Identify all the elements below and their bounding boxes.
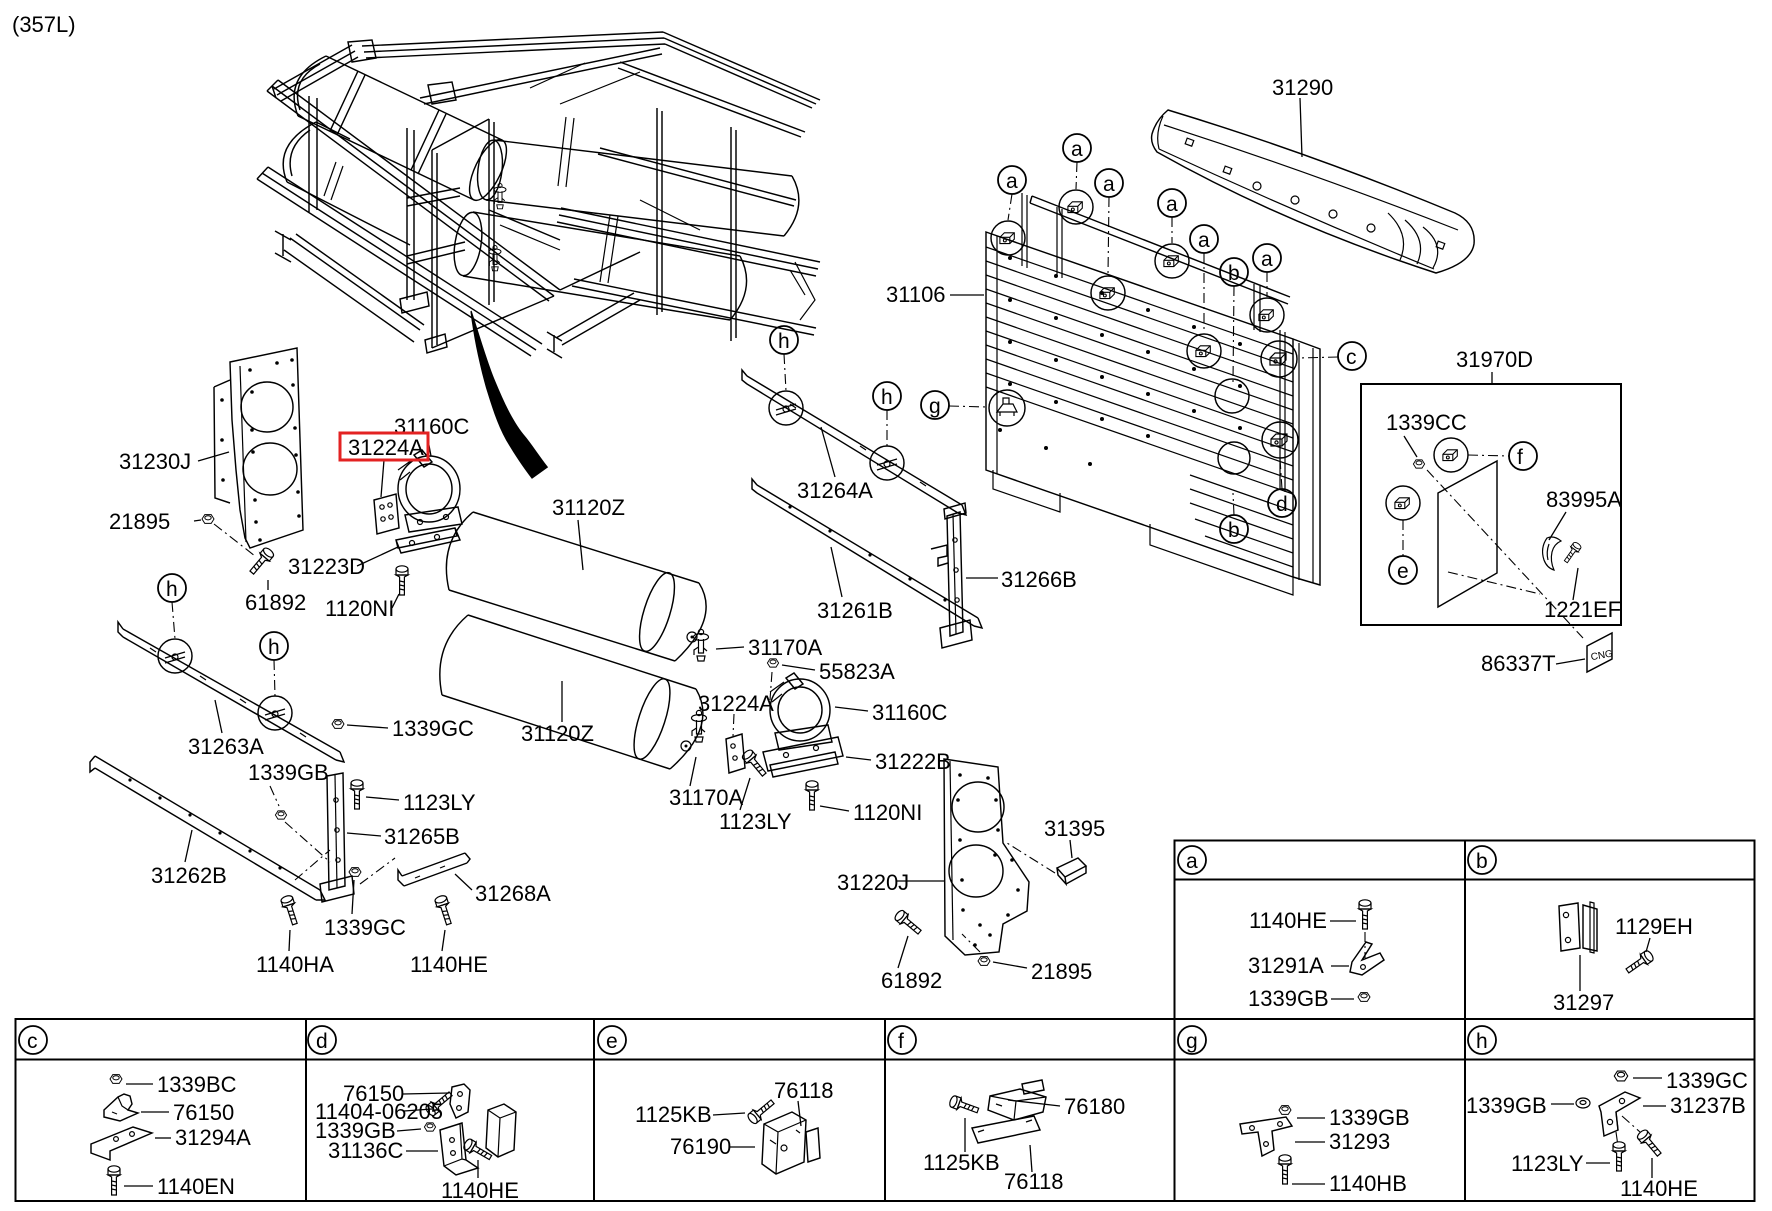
- tank 3 (upper-right): [486, 140, 799, 236]
- cell a: bracket 31291A: [1350, 942, 1384, 975]
- circled letter a (3): [1095, 169, 1123, 197]
- svg-text:1339GB: 1339GB: [1248, 986, 1329, 1011]
- circled letter h (rail2 left): [770, 326, 798, 354]
- detail bubble d: [1262, 422, 1298, 458]
- svg-text:a: a: [1186, 850, 1198, 873]
- reference tables: [16, 841, 1755, 1202]
- cell c: bracket 76150: [104, 1094, 138, 1121]
- svg-text:31106: 31106: [886, 282, 946, 307]
- tank 4 clamp band: [600, 215, 618, 283]
- svg-text:1123LY: 1123LY: [719, 809, 792, 834]
- cell b: screw 1129EH: [1624, 949, 1655, 976]
- header letter h: [1468, 1026, 1496, 1054]
- frame post feet: [400, 292, 447, 353]
- svg-text:a: a: [1166, 193, 1178, 216]
- svg-text:h: h: [778, 330, 790, 353]
- cell f: bolt 1125KB: [948, 1095, 980, 1116]
- bolt 1120NI: [396, 566, 408, 595]
- svg-text:31395: 31395: [1044, 816, 1105, 841]
- cell d: bolt 11404-06205: [424, 1089, 454, 1117]
- panel rivet dots: [998, 256, 1242, 466]
- bracket panel 31230J: [214, 348, 303, 548]
- nut 1339GB: [275, 811, 286, 819]
- cell b: hinge 31297: [1559, 902, 1597, 953]
- cell e: screw 1125KB: [746, 1097, 776, 1125]
- circled letter a (4): [1158, 189, 1186, 217]
- cell d: bracket 76150: [450, 1084, 470, 1118]
- tank 1 clamp band 1: [330, 40, 376, 135]
- svg-text:55823A: 55823A: [819, 659, 895, 684]
- rail 31262B: [90, 756, 325, 900]
- svg-text:86337T: 86337T: [1481, 651, 1556, 676]
- rail 31264A: [742, 370, 966, 515]
- circled letter a (5): [1190, 225, 1218, 253]
- cell g: bracket 31293: [1240, 1117, 1292, 1156]
- svg-text:31263A: 31263A: [188, 734, 264, 759]
- svg-text:1339GB: 1339GB: [1466, 1093, 1547, 1118]
- cell f: strap 76118: [972, 1116, 1040, 1143]
- bracket plate 31224A (2): [726, 734, 745, 773]
- dash-dot connectors: [949, 162, 1338, 515]
- bolt 1140HE: [434, 894, 454, 925]
- svg-text:31120Z: 31120Z: [521, 721, 594, 746]
- CNG label plate 86337T: [1587, 633, 1612, 672]
- circled letter h (rail1 left): [158, 574, 186, 602]
- svg-text:a: a: [1071, 138, 1083, 161]
- svg-text:76118: 76118: [774, 1078, 834, 1103]
- table c-h frame: [16, 1019, 1755, 1201]
- rear frame rail: [420, 48, 662, 104]
- svg-text:1339GB: 1339GB: [248, 760, 329, 785]
- tank 31120Z upper: [446, 512, 706, 661]
- svg-text:1140HE: 1140HE: [1620, 1176, 1698, 1201]
- frame post P2: [489, 119, 494, 305]
- frame post P0: [407, 128, 414, 300]
- svg-text:31291A: 31291A: [1248, 953, 1324, 978]
- cell d: latch plate: [486, 1104, 516, 1157]
- svg-text:31170A: 31170A: [669, 785, 744, 810]
- cell g: bolt 1140HB: [1279, 1155, 1291, 1184]
- frame rail lower-left diagonal: [257, 167, 542, 356]
- cell g: nut 1339GB: [1279, 1106, 1291, 1115]
- detail bubble rail1-1: [158, 639, 192, 673]
- svg-text:76180: 76180: [1064, 1094, 1125, 1119]
- svg-text:g: g: [929, 395, 941, 418]
- svg-text:31237B: 31237B: [1670, 1093, 1746, 1118]
- svg-text:1123LY: 1123LY: [403, 790, 476, 815]
- bolt 1140HA: [280, 894, 300, 925]
- bracket panel 31220J: [944, 759, 1029, 955]
- svg-text:1140HE: 1140HE: [441, 1178, 519, 1203]
- svg-text:31294A: 31294A: [175, 1125, 251, 1150]
- crossmember beam bottom-center: [547, 293, 640, 358]
- detail bubble a4: [1155, 244, 1189, 278]
- svg-text:31297: 31297: [1553, 990, 1614, 1015]
- circled letter a (1): [998, 166, 1026, 194]
- detail bubble a1: [991, 221, 1025, 255]
- svg-text:a: a: [1261, 248, 1273, 271]
- svg-text:1129EH: 1129EH: [1615, 914, 1693, 939]
- screw 1221EF: [1562, 541, 1582, 564]
- svg-text:61892: 61892: [881, 968, 942, 993]
- circled letter d: [1268, 489, 1296, 517]
- header letter b: [1468, 846, 1496, 874]
- frame crossbars between posts: [407, 188, 465, 264]
- svg-text:h: h: [268, 636, 280, 659]
- panel top frame rail: [1030, 196, 1290, 304]
- part 31290 tank cover: [1152, 98, 1475, 273]
- frame post P3: [657, 108, 662, 315]
- circled letter a (2): [1063, 134, 1091, 162]
- valve 31170A (upper): [694, 629, 709, 661]
- svg-text:b: b: [1476, 850, 1488, 873]
- frame top brace: [432, 119, 640, 348]
- svg-text:76118: 76118: [1004, 1169, 1064, 1194]
- frame rail top (to right apex): [362, 32, 820, 108]
- rail 31268A: [398, 853, 470, 886]
- large detail circles on right end: [1215, 379, 1249, 413]
- cell f: bracket 76180: [988, 1080, 1046, 1120]
- svg-text:b: b: [1228, 519, 1240, 542]
- svg-text:h: h: [166, 578, 178, 601]
- chassis assembly with CNG tanks (top reference illustration): [257, 32, 820, 358]
- cell a: nut 1339GB: [1358, 993, 1370, 1002]
- svg-text:31264A: 31264A: [797, 478, 873, 503]
- header letter c: [19, 1026, 47, 1054]
- post 31266B: [931, 503, 972, 648]
- clamp band 31160C (2): [770, 673, 832, 750]
- svg-text:g: g: [1186, 1030, 1198, 1053]
- svg-text:31970D: 31970D: [1456, 347, 1533, 372]
- detail bubble a2: [1059, 190, 1093, 224]
- svg-text:61892: 61892: [245, 590, 306, 615]
- svg-text:1221EF: 1221EF: [1544, 597, 1621, 622]
- svg-text:1140HE: 1140HE: [1249, 908, 1327, 933]
- thick pointer swoosh: [470, 311, 548, 479]
- svg-text:31266B: 31266B: [1001, 567, 1077, 592]
- part 31106 tank mounting gate panel: [921, 134, 1366, 595]
- rear brace lines: [500, 63, 700, 250]
- cell h: bracket 31237B: [1599, 1092, 1640, 1136]
- svg-text:1125KB: 1125KB: [635, 1102, 712, 1127]
- rail 31261B: [752, 479, 982, 628]
- svg-text:f: f: [1517, 446, 1523, 469]
- cell h: nut 1339GC: [1614, 1071, 1628, 1081]
- svg-text:1140HB: 1140HB: [1329, 1171, 1407, 1196]
- svg-text:31262B: 31262B: [151, 863, 227, 888]
- detail bubble a3: [1091, 276, 1125, 310]
- svg-text:31268A: 31268A: [475, 881, 551, 906]
- svg-text:f: f: [898, 1030, 904, 1053]
- svg-text:21895: 21895: [109, 509, 170, 534]
- post 31265B: [320, 773, 354, 902]
- frame crossbar right H1: [598, 148, 796, 206]
- svg-text:76190: 76190: [670, 1134, 731, 1159]
- table a/b frame: [1175, 841, 1755, 1020]
- red highlight box 31224A: [340, 433, 428, 460]
- tank 3 clamp band: [558, 117, 574, 187]
- detail bubble a6: [1250, 298, 1284, 332]
- tank 1 (upper-left): [294, 56, 502, 200]
- mounting panel plate: [1438, 461, 1497, 607]
- tank 31120Z lower: [440, 615, 703, 769]
- svg-text:(357L): (357L): [12, 12, 76, 37]
- header letter a: [1178, 846, 1206, 874]
- circled letter c: [1338, 342, 1366, 370]
- nut 55823A: [767, 659, 778, 667]
- svg-text:1123LY: 1123LY: [1511, 1151, 1584, 1176]
- svg-text:1339CC: 1339CC: [1386, 410, 1467, 435]
- svg-text:a: a: [1198, 229, 1210, 252]
- frame crossbar right H2: [557, 208, 820, 276]
- svg-text:h: h: [881, 386, 893, 409]
- tank 2 clamp marks: [324, 162, 343, 200]
- rail 31263A: [118, 622, 344, 762]
- svg-text:31220J: 31220J: [837, 870, 909, 895]
- cell c: bracket 31294A: [91, 1127, 152, 1160]
- nut 1339GC (top): [332, 720, 344, 729]
- leader 31970D: [1491, 372, 1493, 384]
- bracket plate 31224A: [374, 494, 399, 534]
- svg-text:31224A: 31224A: [698, 691, 774, 716]
- frame left upright: [309, 96, 317, 212]
- circled letter g: [921, 391, 949, 419]
- detail bubble g: [989, 390, 1025, 426]
- svg-text:31261B: 31261B: [817, 598, 893, 623]
- circled letter f: [1509, 442, 1537, 470]
- detail bubble rail2-1: [769, 391, 803, 425]
- circled letter a (6): [1253, 244, 1281, 272]
- nut 21895 (2): [978, 957, 990, 966]
- frame gusset right: [790, 262, 815, 320]
- frame post P1: [432, 150, 437, 348]
- svg-text:31120Z: 31120Z: [552, 495, 625, 520]
- svg-text:1120NI: 1120NI: [325, 596, 394, 621]
- svg-text:d: d: [1276, 493, 1288, 516]
- bolt 61892: [247, 546, 275, 576]
- hook 83995A: [1543, 537, 1561, 570]
- svg-text:1339BC: 1339BC: [157, 1072, 237, 1097]
- cell c: nut 1339BC: [110, 1075, 122, 1084]
- tank valve fittings: [494, 184, 506, 209]
- circled letter h (rail2 right): [873, 382, 901, 410]
- svg-text:31170A: 31170A: [748, 635, 823, 660]
- panel right end plate: [1293, 339, 1320, 585]
- bolt 1123LY (2): [741, 748, 769, 778]
- left cluster: [90, 348, 706, 951]
- svg-text:1140HA: 1140HA: [256, 952, 334, 977]
- cell d: nut 1339GB: [424, 1123, 435, 1131]
- crossmember beam bottom-left: [275, 231, 424, 342]
- svg-text:76150: 76150: [173, 1100, 234, 1125]
- svg-text:31290: 31290: [1272, 75, 1333, 100]
- svg-text:d: d: [316, 1030, 328, 1053]
- svg-text:b: b: [1228, 262, 1240, 285]
- svg-text:31230J: 31230J: [119, 449, 191, 474]
- svg-text:31136C: 31136C: [328, 1138, 404, 1163]
- circled letter b (top): [1220, 258, 1248, 286]
- header letter g: [1178, 1026, 1206, 1054]
- nut 1339GC (bottom): [349, 868, 361, 877]
- svg-text:1339GC: 1339GC: [392, 716, 474, 741]
- detail bubble e: [1386, 486, 1420, 520]
- cell h: washer 1339GB: [1576, 1098, 1590, 1108]
- nut 21895: [202, 515, 214, 524]
- tank 1 clamp band 2: [411, 82, 456, 174]
- clamp band 31160C (upper): [398, 450, 462, 532]
- leader 11404-06205: [404, 1109, 432, 1111]
- svg-text:1140EN: 1140EN: [157, 1174, 235, 1199]
- svg-text:31224A: 31224A: [348, 435, 424, 460]
- svg-text:31265B: 31265B: [384, 824, 460, 849]
- svg-text:31222B: 31222B: [875, 749, 951, 774]
- frame rail upper-left: [272, 45, 358, 101]
- svg-text:31293: 31293: [1329, 1129, 1390, 1154]
- svg-text:83995A: 83995A: [1546, 487, 1622, 512]
- bolt 1123LY: [351, 780, 363, 809]
- bracket 31223D: [396, 528, 460, 553]
- frame post P4: [731, 127, 736, 341]
- nut 1339CC: [1413, 460, 1424, 468]
- svg-text:1339GC: 1339GC: [1666, 1068, 1748, 1093]
- svg-text:1140HE: 1140HE: [410, 952, 488, 977]
- cell d: bracket 31136C: [440, 1123, 478, 1175]
- svg-text:a: a: [1103, 173, 1115, 196]
- valve 31170A (lower): [692, 710, 707, 742]
- header letter f: [888, 1026, 916, 1054]
- svg-text:31160C: 31160C: [872, 700, 948, 725]
- circled letter e: [1389, 556, 1417, 584]
- svg-text:e: e: [606, 1030, 618, 1053]
- detail bubble c: [1261, 341, 1297, 377]
- cell e: latch 76190/76118: [762, 1112, 820, 1174]
- circled letter b (bottom): [1220, 515, 1248, 543]
- header letter e: [598, 1026, 626, 1054]
- svg-text:31223D: 31223D: [288, 554, 365, 579]
- middle cluster: [690, 326, 1086, 968]
- svg-text:e: e: [1397, 560, 1409, 583]
- part 31970D bracket kit box: [1361, 372, 1621, 672]
- circled letter h (rail1 right): [260, 632, 288, 660]
- cell d: bolt 1140HE: [462, 1138, 493, 1163]
- bracket 31222B: [763, 737, 843, 777]
- bolt 1120NI (2): [806, 781, 818, 810]
- bolt 61892 (2): [893, 909, 923, 937]
- header letter d: [308, 1026, 336, 1054]
- svg-text:1339GB: 1339GB: [1329, 1105, 1410, 1130]
- second right rail: [618, 62, 805, 137]
- svg-text:1125KB: 1125KB: [923, 1150, 1000, 1175]
- cell a: bolt 1140HE: [1359, 900, 1371, 929]
- detail bubble a5: [1187, 334, 1221, 368]
- tank 4 (lower-right): [463, 212, 747, 320]
- cell h: bolt 1140HE: [1636, 1128, 1664, 1158]
- detail bubble f: [1434, 438, 1468, 472]
- svg-text:c: c: [1346, 346, 1357, 369]
- detail bubble rail1-2: [258, 696, 292, 730]
- frame rail front-left diagonal: [267, 80, 560, 301]
- cell h: screw 1123LY: [1613, 1142, 1625, 1171]
- svg-text:h: h: [1476, 1030, 1488, 1053]
- tank 2 (lower-left, partial): [283, 122, 410, 245]
- leader 31290: [1300, 98, 1302, 157]
- plate 31395: [1057, 858, 1086, 884]
- svg-text:a: a: [1006, 170, 1018, 193]
- svg-text:1339GC: 1339GC: [324, 915, 406, 940]
- svg-text:21895: 21895: [1031, 959, 1092, 984]
- svg-text:1120NI: 1120NI: [853, 800, 922, 825]
- detail bubble rail2-2: [870, 446, 904, 480]
- frame crossbar right H3: [572, 279, 816, 335]
- svg-text:c: c: [27, 1030, 38, 1053]
- cell c: bolt 1140EN: [108, 1166, 120, 1195]
